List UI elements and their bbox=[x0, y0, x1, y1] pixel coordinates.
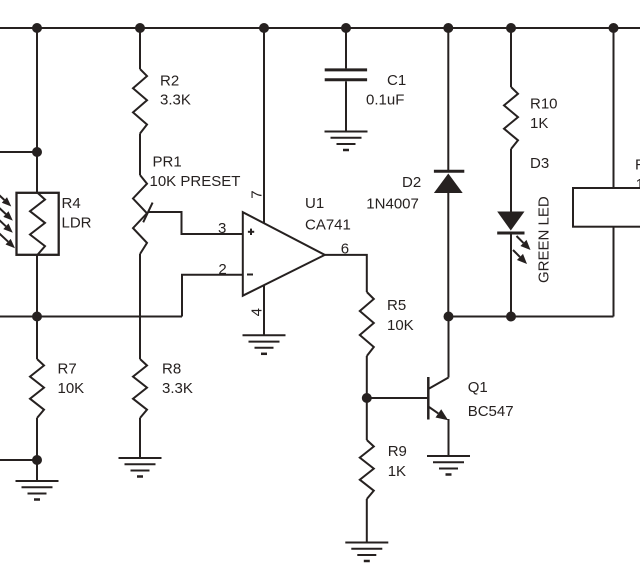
wire pin 7 supply bbox=[263, 28, 265, 224]
svg-text:R9: R9 bbox=[388, 443, 407, 460]
potentiometer PR1 body bbox=[133, 175, 147, 254]
svg-text:R5: R5 bbox=[387, 297, 406, 314]
svg-text:7: 7 bbox=[249, 190, 266, 198]
wire rail to R10 bbox=[510, 28, 512, 87]
node C junction bbox=[362, 393, 372, 403]
wire node C to R9 bbox=[366, 398, 368, 440]
svg-text:10K: 10K bbox=[58, 380, 85, 397]
label R8 value 3.3K bbox=[162, 380, 193, 397]
node rail-relay junction bbox=[609, 23, 619, 33]
diode D2 bbox=[434, 171, 464, 193]
wire rail to LDR bbox=[36, 28, 38, 193]
label pin 7 bbox=[249, 190, 266, 198]
label R4 bbox=[62, 195, 81, 212]
label D3 bbox=[530, 155, 549, 172]
svg-text:GREEN LED: GREEN LED bbox=[536, 196, 553, 283]
ground C1 bbox=[325, 132, 368, 151]
label R2 value 3.3K bbox=[160, 92, 191, 109]
label R7 value 10K bbox=[58, 380, 85, 397]
ground R7 bbox=[16, 481, 59, 500]
label R5 bbox=[387, 297, 406, 314]
transistor Q1 base bar bbox=[427, 377, 430, 420]
resistor R7 bbox=[30, 359, 44, 418]
wire D3 to node E bbox=[510, 233, 512, 317]
wire R2 to PR1 bbox=[139, 134, 141, 176]
wire R7 to ground node bbox=[36, 418, 38, 481]
resistor R5 bbox=[360, 292, 374, 356]
wire PR1 to R8 bbox=[139, 254, 141, 359]
op-amp minus input mark bbox=[247, 274, 253, 276]
resistor R9 bbox=[360, 440, 374, 499]
node B junction bbox=[32, 312, 42, 322]
wire R5 to node C bbox=[366, 356, 368, 398]
svg-text:Q1: Q1 bbox=[468, 379, 488, 396]
resistor R10 bbox=[504, 87, 518, 149]
ground R8 bbox=[119, 458, 162, 477]
node D junction bbox=[444, 312, 454, 322]
svg-text:BC547: BC547 bbox=[468, 403, 514, 420]
svg-text:R8: R8 bbox=[162, 360, 181, 377]
svg-text:D2: D2 bbox=[402, 174, 421, 191]
ground R9 bbox=[345, 543, 388, 562]
wire R8 to ground bbox=[139, 418, 141, 458]
label D2 bbox=[402, 174, 421, 191]
node A junction bbox=[32, 147, 42, 157]
svg-text:RL1: RL1 bbox=[635, 157, 640, 174]
transistor Q1 emitter bbox=[428, 407, 448, 457]
node rail-R10 junction bbox=[506, 23, 516, 33]
resistor R8 bbox=[133, 359, 147, 418]
wire wiper to pin 3 bbox=[148, 212, 243, 234]
wire left stub at R7 ground bbox=[0, 459, 37, 461]
wire R10 to D3 bbox=[510, 149, 512, 212]
node R7-ground junction bbox=[32, 455, 42, 465]
LED D3 bbox=[497, 212, 524, 234]
light arrows into LDR bbox=[0, 191, 15, 248]
label C1 bbox=[387, 72, 406, 89]
wire R9 to ground bbox=[366, 499, 368, 543]
wire inverting feed left segment bbox=[0, 316, 182, 318]
svg-text:3: 3 bbox=[218, 220, 226, 237]
svg-text:R7: R7 bbox=[58, 360, 77, 377]
wire top supply rail bbox=[0, 27, 640, 29]
node rail-C1 junction bbox=[341, 23, 351, 33]
svg-text:1K: 1K bbox=[388, 463, 406, 480]
svg-text:LDR: LDR bbox=[62, 215, 92, 232]
svg-text:R2: R2 bbox=[160, 73, 179, 90]
svg-text:PR1: PR1 bbox=[153, 153, 182, 170]
wire relay column bbox=[613, 28, 615, 317]
label D2 value 1N4007 bbox=[366, 196, 419, 213]
ground Q1 emitter bbox=[427, 456, 470, 475]
svg-text:1K: 1K bbox=[530, 115, 548, 132]
label U1 value CA741 bbox=[305, 217, 351, 234]
svg-text:R10: R10 bbox=[530, 95, 558, 112]
label pin 2 bbox=[218, 261, 226, 278]
ground op-amp pin 4 bbox=[243, 335, 286, 354]
op-amp U1 triangle bbox=[243, 212, 325, 296]
label RL1 bbox=[635, 157, 640, 174]
label R10 bbox=[530, 95, 558, 112]
svg-text:3.3K: 3.3K bbox=[160, 92, 191, 109]
label PR1 value 10K PRESET bbox=[150, 173, 241, 190]
svg-text:10K: 10K bbox=[387, 317, 414, 334]
label R9 value 1K bbox=[388, 463, 406, 480]
wire rail to D2 bbox=[447, 28, 449, 171]
svg-text:C1: C1 bbox=[387, 72, 406, 89]
potentiometer PR1 wiper tick bbox=[143, 203, 152, 223]
label LDR bbox=[62, 215, 92, 232]
label PR1 bbox=[153, 153, 182, 170]
label pin 4 bbox=[249, 308, 266, 316]
wire bottom net bbox=[449, 316, 614, 318]
resistor R4 LDR body bbox=[17, 193, 59, 255]
label C1 value 0.1uF bbox=[366, 92, 404, 109]
label R9 bbox=[388, 443, 407, 460]
svg-text:12V: 12V bbox=[636, 176, 640, 193]
label GREEN LED bbox=[536, 196, 553, 283]
wire rail to C1 bbox=[345, 28, 347, 68]
relay RL1 coil box bbox=[573, 188, 640, 227]
transistor Q1 collector bbox=[428, 317, 448, 390]
label R10 value 1K bbox=[530, 115, 548, 132]
wire C1 to ground bbox=[345, 81, 347, 131]
wire pin 4 to ground bbox=[263, 285, 265, 336]
svg-text:R4: R4 bbox=[62, 195, 81, 212]
label R7 bbox=[58, 360, 77, 377]
wire base bbox=[367, 397, 429, 399]
op-amp plus input mark bbox=[248, 229, 254, 235]
LED light arrows bbox=[513, 236, 531, 264]
wire pin 6 output bbox=[325, 255, 367, 292]
svg-text:6: 6 bbox=[341, 240, 349, 257]
label Q1 bbox=[468, 379, 488, 396]
label R5 value 10K bbox=[387, 317, 414, 334]
svg-text:D3: D3 bbox=[530, 155, 549, 172]
svg-text:U1: U1 bbox=[305, 195, 324, 212]
label Q1 value BC547 bbox=[468, 403, 514, 420]
capacitor C1 plates bbox=[325, 70, 367, 80]
svg-text:10K PRESET: 10K PRESET bbox=[150, 173, 241, 190]
wire left stub at node A bbox=[0, 151, 37, 153]
svg-text:4: 4 bbox=[249, 308, 266, 316]
node rail-pin7 junction bbox=[259, 23, 269, 33]
svg-text:1N4007: 1N4007 bbox=[366, 196, 419, 213]
svg-text:CA741: CA741 bbox=[305, 217, 351, 234]
node rail-LDR junction bbox=[32, 23, 42, 33]
label R2 bbox=[160, 73, 179, 90]
label pin 3 bbox=[218, 220, 226, 237]
label pin 6 bbox=[341, 240, 349, 257]
resistor R2 bbox=[133, 69, 147, 134]
svg-text:0.1uF: 0.1uF bbox=[366, 92, 404, 109]
node E junction bbox=[506, 312, 516, 322]
wire D2 to node D bbox=[447, 193, 449, 317]
node rail-R2 junction bbox=[135, 23, 145, 33]
label relay value 12V bbox=[636, 176, 640, 193]
svg-text:2: 2 bbox=[218, 261, 226, 278]
wire rail to R2 bbox=[139, 28, 141, 69]
wire LDR to node B bbox=[36, 255, 38, 359]
svg-text:3.3K: 3.3K bbox=[162, 380, 193, 397]
node rail-D2 junction bbox=[443, 23, 453, 33]
label R8 bbox=[162, 360, 181, 377]
label U1 bbox=[305, 195, 324, 212]
wire node B to pin 2 bbox=[182, 275, 243, 317]
